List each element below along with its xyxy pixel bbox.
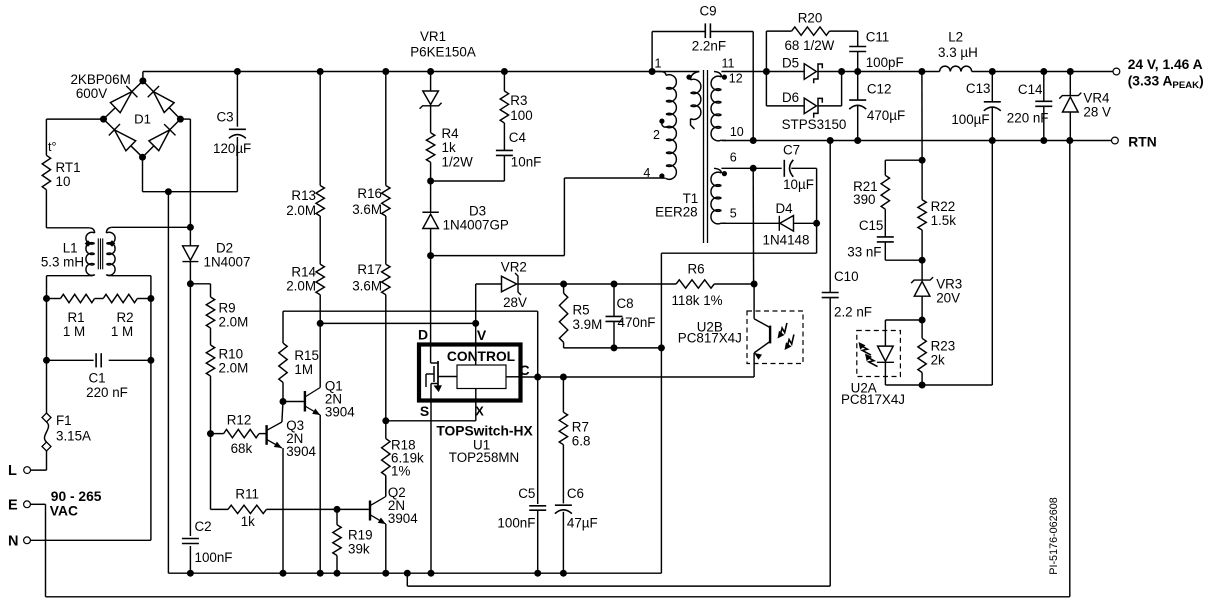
node wire2 right V (472, 320, 479, 327)
node rail Q2e (382, 570, 389, 577)
svg-text:C11: C11 (866, 30, 890, 45)
label 24V (1128, 57, 1204, 91)
svg-text:470nF: 470nF (618, 315, 656, 330)
wire bridge bottom (143, 157, 238, 192)
svg-text:PC817X4J: PC817X4J (841, 392, 905, 407)
svg-text:1k: 1k (241, 514, 255, 529)
label R3 (510, 93, 532, 123)
node C8 top (611, 281, 618, 288)
node C pin junction R7 (560, 374, 567, 381)
label C3 value (213, 141, 251, 156)
label R19 (348, 528, 373, 557)
node rail S (428, 570, 435, 577)
label pin 10 (730, 125, 744, 139)
capacitor C2 (182, 539, 199, 574)
label C1 (86, 371, 128, 400)
wire S pin (430, 401, 432, 574)
svg-text:5.3 mH: 5.3 mH (41, 255, 84, 270)
label pin 1 (655, 57, 662, 71)
label pin V (477, 327, 487, 343)
svg-text:D1: D1 (134, 112, 151, 127)
transistor Q2 (370, 476, 386, 574)
node D3 bottom junction (427, 252, 434, 259)
U2B light arrows (778, 323, 794, 350)
label 90-265 VAC (50, 489, 102, 519)
label D3 (443, 204, 509, 233)
wire D2 node to R9 (190, 284, 210, 297)
svg-text:1N4007: 1N4007 (204, 255, 251, 270)
label C2 (195, 519, 233, 565)
node R22 bottom (919, 257, 926, 264)
resistor R18 (382, 421, 390, 497)
svg-text:33 nF: 33 nF (847, 244, 881, 259)
capacitor C4 (431, 123, 513, 181)
svg-text:3904: 3904 (286, 444, 316, 459)
label t deg (48, 140, 56, 154)
transformer polarity dots (659, 75, 727, 179)
svg-text:1 M: 1 M (111, 324, 133, 339)
svg-text:L: L (8, 463, 17, 479)
capacitor C12 (849, 72, 866, 141)
label R20 (784, 11, 834, 54)
label TOPSwitch-HX (436, 423, 533, 438)
capacitor C9 (652, 23, 753, 140)
node R6 right (751, 281, 758, 288)
svg-text:R16: R16 (357, 186, 382, 201)
label D2 (204, 241, 251, 270)
opto transistor U2B (754, 284, 770, 377)
svg-text:C12: C12 (867, 82, 892, 97)
svg-text:L2: L2 (948, 30, 963, 45)
svg-text:RT1: RT1 (56, 160, 81, 175)
node X junction (382, 417, 389, 424)
svg-text:R22: R22 (931, 199, 956, 214)
transformer T1 (652, 70, 726, 243)
capacitor C10 (407, 141, 838, 587)
label U1 (473, 438, 490, 453)
svg-text:10: 10 (56, 174, 71, 189)
node D5 anode (763, 68, 770, 75)
wire R5 C8 bottom (564, 347, 662, 349)
fuse F1 (30, 413, 51, 470)
svg-text:VR1: VR1 (420, 29, 446, 44)
label C11 (866, 30, 904, 70)
svg-text:47µF: 47µF (567, 516, 598, 531)
svg-text:2KBP06M: 2KBP06M (70, 72, 130, 87)
svg-text:1/2W: 1/2W (442, 155, 474, 170)
svg-text:PI-5176-062608: PI-5176-062608 (1048, 497, 1060, 574)
wire top primary rail (143, 72, 699, 81)
label VR4 (1083, 91, 1111, 120)
node R4 C4 junction (427, 178, 434, 185)
svg-text:EER28: EER28 (655, 204, 697, 219)
svg-text:6: 6 (730, 151, 737, 165)
node rail C5 (534, 570, 541, 577)
svg-text:R12: R12 (227, 413, 252, 428)
node pin6 junction (750, 165, 757, 172)
svg-text:2.2nF: 2.2nF (692, 39, 726, 54)
svg-text:C13: C13 (966, 81, 991, 96)
svg-text:470µF: 470µF (867, 108, 905, 123)
wire C pin (506, 376, 754, 378)
resistor R3 (500, 72, 508, 124)
wire C3 branch (236, 72, 238, 192)
transistor Q1 (305, 323, 320, 573)
svg-text:R2: R2 (116, 310, 133, 325)
svg-text:C2: C2 (195, 519, 212, 534)
label R12 (227, 413, 253, 456)
label R23 (931, 339, 956, 368)
svg-text:120µF: 120µF (213, 141, 251, 156)
transistor Q3 (267, 402, 283, 574)
resistor R10 (206, 328, 214, 376)
resistor R15 (279, 311, 287, 401)
resistor R12 (211, 429, 267, 437)
wire L1 bottom right (112, 276, 151, 299)
label R2 (111, 310, 134, 339)
label pin S (420, 403, 429, 419)
label pin C (520, 362, 530, 378)
node bridge bottom junction (165, 188, 172, 195)
svg-text:N: N (8, 534, 18, 550)
label R9 (219, 301, 249, 330)
terminal 24V output (1113, 68, 1120, 75)
node top rail junction dots (234, 68, 656, 75)
resistor R21 (881, 160, 922, 209)
wire RT1 to L1 (46, 190, 89, 228)
svg-text:TOP258MN: TOP258MN (449, 450, 519, 465)
label L1 (41, 241, 84, 270)
resistor R9 (206, 297, 214, 328)
node VR4 bottom (1066, 137, 1073, 144)
svg-text:D2: D2 (216, 241, 233, 256)
capacitor C1 (47, 353, 151, 367)
node rail Q3e (280, 570, 287, 577)
label C8 (617, 296, 656, 330)
node R22 tap (918, 68, 925, 75)
wire VR4 RTN to earth (1069, 141, 1071, 597)
label R21 (853, 179, 878, 207)
capacitor C11 (849, 31, 866, 71)
svg-text:R23: R23 (931, 339, 956, 354)
wire pin 11 (721, 71, 804, 73)
wire Q1 base (283, 401, 305, 403)
svg-text:D3: D3 (469, 204, 486, 219)
terminal RTN (1112, 137, 1119, 144)
label STPS3150 (782, 117, 847, 132)
svg-text:1M: 1M (294, 362, 313, 377)
diode D4 (779, 216, 816, 232)
label VR2 (501, 259, 527, 310)
wire D3 to transformer pin 4 (431, 178, 661, 256)
svg-text:L1: L1 (63, 241, 78, 256)
node C1 left (43, 357, 50, 364)
svg-text:CONTROL: CONTROL (447, 349, 515, 364)
svg-text:1 M: 1 M (63, 324, 85, 339)
capacitor C8 (606, 284, 623, 348)
svg-text:D4: D4 (775, 201, 793, 216)
svg-text:28 V: 28 V (1083, 105, 1111, 120)
label R14 (286, 265, 316, 294)
svg-text:1%: 1% (391, 464, 410, 479)
svg-text:TOPSwitch-HX: TOPSwitch-HX (436, 423, 533, 438)
diode U2A LED (877, 320, 922, 385)
svg-text:E: E (8, 498, 18, 514)
wire primary ground rail (168, 572, 661, 574)
svg-text:R9: R9 (219, 301, 236, 316)
resistor R20 (766, 27, 857, 72)
capacitor C14 (1035, 72, 1052, 141)
svg-text:2: 2 (653, 128, 660, 142)
svg-text:68 1/2W: 68 1/2W (784, 38, 834, 53)
label R18 (391, 437, 424, 478)
node R1 left (43, 295, 50, 302)
node C9 RTN (750, 137, 757, 144)
label pin 11 (722, 57, 735, 71)
zener VR4 (1059, 72, 1081, 141)
wire output rail (972, 71, 1113, 73)
terminal L (8, 463, 31, 479)
label T1 EER28 (655, 191, 698, 219)
transistor MOSFET inside U1 (426, 345, 457, 401)
label U2B (678, 319, 742, 345)
wire L1 top right (112, 226, 191, 228)
svg-text:1N4007GP: 1N4007GP (443, 218, 509, 233)
svg-text:VR3: VR3 (936, 277, 962, 292)
capacitor C6 (555, 445, 572, 574)
svg-text:R10: R10 (219, 347, 244, 362)
label C7 (783, 143, 814, 192)
svg-text:10nF: 10nF (511, 155, 542, 170)
node C12 bottom (854, 137, 861, 144)
label F1 (56, 413, 91, 444)
svg-text:D5: D5 (782, 56, 799, 71)
svg-text:R13: R13 (291, 188, 316, 203)
wire R10 to R12 node (210, 376, 212, 434)
node rail R19 (334, 570, 341, 577)
label U2A (841, 381, 905, 408)
label R13 (286, 188, 316, 218)
label pin 12 (729, 72, 743, 86)
diode D6 loop (766, 72, 841, 118)
svg-text:C4: C4 (509, 130, 527, 145)
svg-text:68k: 68k (231, 441, 253, 456)
label pin X (475, 404, 484, 419)
terminal E (8, 498, 46, 597)
svg-text:90 - 265: 90 - 265 (51, 489, 102, 504)
svg-text:STPS3150: STPS3150 (782, 117, 847, 132)
label C3 (216, 109, 233, 124)
node R19 top (334, 506, 341, 513)
node R12 junction (207, 430, 214, 437)
capacitor C7 (784, 160, 816, 224)
zener VR2 (476, 273, 564, 323)
label C9 (692, 4, 726, 54)
label C4 (509, 130, 542, 170)
label R7 (572, 420, 591, 449)
U2A dashed box (857, 331, 901, 377)
svg-text:3.6M: 3.6M (352, 202, 382, 217)
label R17 (352, 262, 382, 294)
svg-text:R1: R1 (67, 310, 84, 325)
svg-text:C9: C9 (699, 4, 716, 19)
svg-text:P6KE150A: P6KE150A (410, 45, 476, 60)
svg-text:1k: 1k (442, 140, 456, 155)
svg-text:100nF: 100nF (497, 516, 535, 531)
capacitor C15 (877, 209, 922, 260)
wire right column N (150, 299, 152, 541)
svg-text:R15: R15 (294, 348, 319, 363)
node R5 top (560, 281, 567, 288)
svg-text:4: 4 (643, 166, 650, 180)
label pin 5 (730, 207, 737, 221)
label R5 (573, 303, 603, 333)
svg-text:1N4148: 1N4148 (763, 232, 810, 247)
inductor L2 (940, 66, 972, 71)
svg-text:6.8: 6.8 (572, 434, 591, 449)
svg-text:C1: C1 (88, 371, 105, 386)
node D4 anode junction (813, 220, 820, 227)
svg-text:C6: C6 (567, 486, 584, 501)
resistor R14 (316, 216, 324, 323)
capacitor C13 (984, 72, 1001, 141)
svg-text:3.3 µH: 3.3 µH (938, 45, 978, 60)
label pin 2 (653, 128, 660, 142)
svg-text:C: C (520, 362, 530, 378)
node wire2 left (317, 320, 324, 327)
node C13 bottom (989, 137, 996, 144)
node C1 right (147, 357, 154, 364)
svg-text:10µF: 10µF (783, 177, 814, 192)
inductor L1 common-mode choke (85, 227, 116, 275)
wire down to R11 (211, 434, 229, 510)
resistor R16 (382, 72, 390, 217)
capacitor C5 (529, 377, 546, 573)
svg-text:VR2: VR2 (501, 259, 527, 274)
resistor R19 (333, 509, 341, 573)
node rail C6 (560, 570, 567, 577)
label R4 (442, 126, 474, 170)
label PI number (1048, 497, 1060, 574)
svg-text:t°: t° (48, 140, 56, 154)
node VR3 bottom (919, 317, 926, 324)
svg-text:1.5k: 1.5k (931, 213, 957, 228)
zener VR1 (420, 72, 442, 133)
svg-text:R14: R14 (291, 265, 316, 280)
resistor R4 (426, 133, 434, 181)
label Q3 (286, 418, 316, 459)
svg-text:28V: 28V (503, 295, 527, 310)
svg-text:R5: R5 (573, 303, 590, 318)
svg-text:2k: 2k (931, 353, 945, 368)
wire feedback return (922, 141, 992, 386)
svg-text:118k 1%: 118k 1% (671, 293, 722, 308)
diode D5 (804, 64, 858, 84)
node rail C2 (187, 570, 194, 577)
wire V pin internal (475, 323, 477, 365)
svg-text:3.6M: 3.6M (352, 279, 382, 294)
resistor R1 (47, 294, 95, 302)
node C10 top (827, 137, 834, 144)
svg-text:3.15A: 3.15A (56, 429, 91, 444)
node R23 bottom (919, 382, 926, 389)
node rail Q1e (317, 570, 324, 577)
node bias return junction (658, 344, 665, 351)
svg-text:X: X (475, 404, 484, 419)
svg-text:220 nF: 220 nF (1007, 110, 1049, 125)
svg-text:2.0M: 2.0M (286, 203, 316, 218)
bridge rectifier D1 (100, 77, 184, 160)
wire bridge right to D2 (180, 119, 190, 245)
label RT1 (56, 160, 81, 189)
resistor R7 (559, 377, 567, 445)
wire D pin (430, 256, 432, 345)
svg-text:390: 390 (853, 192, 875, 207)
wire bias return (661, 223, 816, 573)
svg-text:R17: R17 (357, 262, 382, 277)
terminal N (8, 534, 151, 550)
svg-text:PC817X4J: PC817X4J (678, 330, 742, 345)
label D1 (134, 112, 151, 127)
label Q1 (325, 379, 355, 420)
svg-text:V: V (477, 327, 487, 343)
svg-text:2.0M: 2.0M (286, 279, 316, 294)
label VR3 (936, 277, 962, 306)
zener VR3 (911, 260, 933, 320)
node D2 bottom (187, 280, 194, 287)
svg-text:11: 11 (722, 57, 735, 71)
wire X pin internal (386, 389, 476, 421)
wire bridge left to RT1 (46, 119, 103, 155)
svg-text:D6: D6 (782, 90, 799, 105)
label 2KBP06M 600V (70, 72, 130, 101)
wire pin6 to R6 (752, 168, 754, 284)
resistor R13 (316, 72, 324, 217)
node C13 top (989, 68, 996, 75)
resistor R11 (228, 505, 369, 513)
svg-text:R19: R19 (348, 528, 373, 543)
wire left primary ground vertical (167, 192, 169, 574)
label pin D (418, 327, 428, 343)
label RTN (1128, 134, 1156, 149)
label D6 (782, 90, 799, 105)
svg-text:R11: R11 (235, 486, 259, 501)
wire earth bottom (46, 596, 1070, 598)
wire L1 bottom left (47, 276, 90, 299)
svg-text:24 V, 1.46 A: 24 V, 1.46 A (1128, 57, 1203, 72)
wire VR2 node (564, 283, 677, 285)
label C5 (497, 486, 535, 531)
svg-text:VAC: VAC (50, 504, 78, 519)
svg-text:2.0M: 2.0M (219, 361, 249, 376)
node R2 right (147, 295, 154, 302)
resistor R5 (559, 284, 567, 348)
svg-text:S: S (420, 403, 429, 419)
wire left column L (46, 299, 48, 415)
svg-text:R20: R20 (798, 11, 823, 26)
diode D2 (182, 246, 198, 284)
wire RTN rail (721, 140, 1111, 142)
svg-text:R3: R3 (510, 93, 527, 108)
svg-text:100pF: 100pF (866, 55, 904, 70)
node L1 junction (187, 224, 194, 231)
wire pin 5 (721, 222, 779, 224)
label TOP258MN (449, 450, 519, 465)
label D4 (763, 201, 810, 247)
svg-text:100µF: 100µF (951, 112, 989, 127)
node Q1 Q3 junction (280, 398, 287, 405)
label Q2 (388, 485, 418, 526)
